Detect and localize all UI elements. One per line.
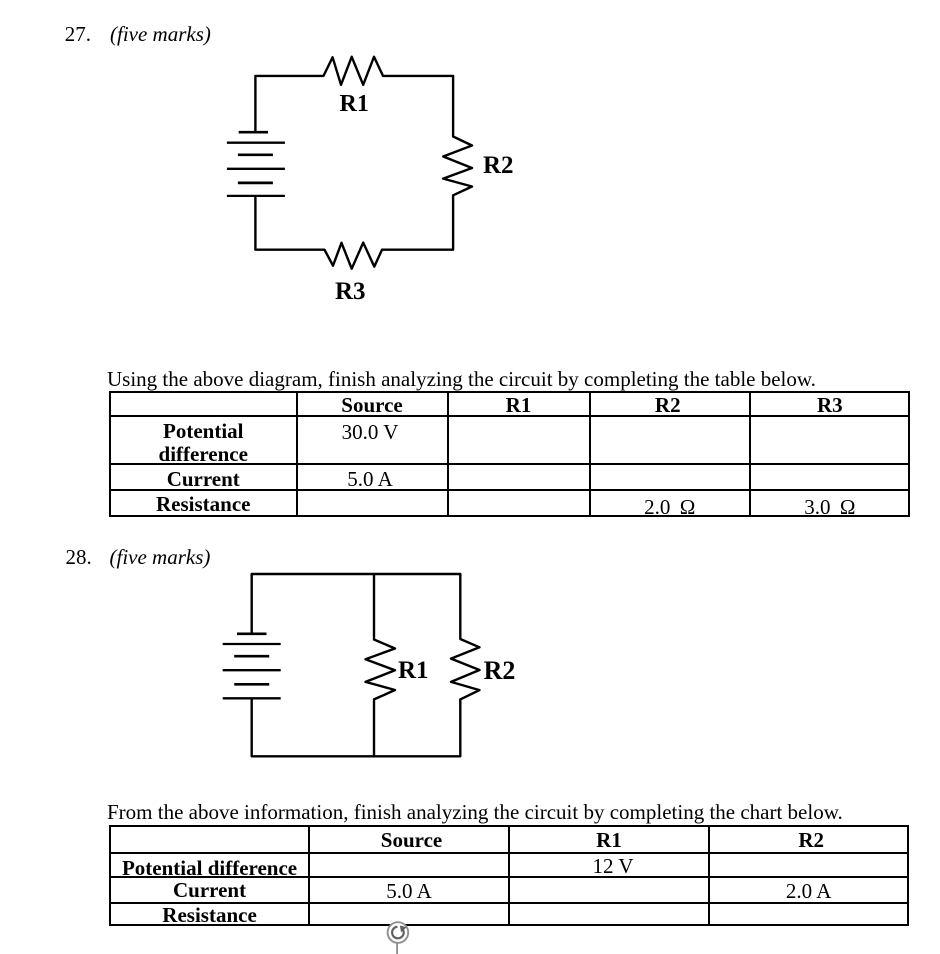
table1 row label Potential difference <box>111 421 296 442</box>
table1 divider after R1 column <box>589 391 591 517</box>
circuit 1: series circuit schematic <box>200 40 540 310</box>
rotate handle icon <box>380 914 420 954</box>
table1 bottom border <box>109 515 910 517</box>
battery B1 short plate 2 <box>238 182 273 185</box>
table1 line below potential row <box>109 463 910 465</box>
table1 line below header <box>109 415 910 417</box>
handle circle <box>388 922 409 943</box>
battery B2 short plate 1 <box>234 655 269 658</box>
table1 value 2.0 ohm <box>591 497 750 518</box>
table 1 grid <box>0 0 940 1</box>
table1 value 30.0 V <box>298 422 443 443</box>
resistor R1 middle branch <box>366 574 396 756</box>
label R2 (circuit 1) <box>483 155 514 176</box>
table2 line below header <box>109 852 909 854</box>
table2 right border <box>907 825 909 927</box>
table1 header R1 <box>449 395 589 416</box>
table1 top border <box>109 391 910 393</box>
table1 row label Current <box>111 469 296 490</box>
circuit 2: parallel circuit schematic <box>200 550 540 780</box>
question 27 marks note <box>110 24 211 45</box>
table2 top border <box>109 825 909 827</box>
table1 header Source <box>298 395 447 416</box>
caption for table 1 <box>107 369 816 390</box>
table1 header R3 <box>751 395 909 416</box>
battery B2 long plate 1 <box>223 643 281 645</box>
wire loop with resistor R2 branch (parallel circuit) <box>252 574 480 756</box>
table1 divider after label column <box>296 391 298 517</box>
table2 row label Current <box>110 880 309 901</box>
table2 header R2 <box>712 830 911 851</box>
table1 right border <box>908 391 910 517</box>
battery B1 terminal short bar <box>239 131 268 134</box>
table1 line below current row <box>109 489 910 491</box>
table2 left border <box>109 825 111 927</box>
table1 row label Resistance <box>111 494 296 515</box>
table2 header R1 <box>509 830 709 851</box>
label R1 (circuit 2) <box>398 660 429 681</box>
label R1 (circuit 1) <box>340 94 369 115</box>
table1 header R2 <box>589 395 748 416</box>
table2 header Source <box>312 830 512 851</box>
battery B1 long plate 2 <box>227 168 285 170</box>
wire loop with resistors R1 R2 R3 (series circuit) <box>255 57 472 269</box>
arrowhead <box>400 926 407 933</box>
table2 row label Resistance <box>110 905 309 926</box>
battery B1 long plate 1 <box>227 142 285 144</box>
question number 28 <box>66 547 92 568</box>
table 2 grid <box>0 0 940 1</box>
table2 value 12 V <box>513 856 713 877</box>
label R3 (circuit 1) <box>335 281 366 302</box>
handle stem line <box>396 943 398 954</box>
battery B2 short plate 2 <box>234 683 269 686</box>
battery B1 long plate 3 <box>227 195 285 197</box>
question number 27 <box>65 24 91 45</box>
table2 row label Potential difference <box>110 858 309 879</box>
battery B1 short plate 1 <box>238 153 273 156</box>
question 28 marks note <box>110 547 211 568</box>
battery B2 long plate 2 <box>223 669 281 671</box>
caption for table 2 <box>107 802 843 823</box>
table1 left border <box>109 391 111 517</box>
table2 divider after R1 column <box>708 825 710 927</box>
table2 divider after Source column <box>508 825 510 927</box>
table2 value 5.0 A (source current) <box>309 881 509 902</box>
clockwise arrow arc <box>392 927 404 939</box>
table1 divider after R2 column <box>749 391 751 517</box>
table2 divider after label column <box>308 825 310 927</box>
label R2 (circuit 2) <box>484 660 516 681</box>
battery B2 terminal short bar <box>237 632 267 635</box>
table2 value 2.0 A <box>709 881 908 902</box>
table2 line below current row <box>109 902 909 904</box>
table1 value 5.0 A <box>298 469 443 490</box>
table2 bottom border <box>109 924 909 926</box>
table1 value 3.0 ohm <box>751 497 909 518</box>
battery B2 long plate 3 <box>223 697 281 699</box>
table1 divider after Source column <box>447 391 449 517</box>
table2 line below potential row <box>109 876 909 878</box>
